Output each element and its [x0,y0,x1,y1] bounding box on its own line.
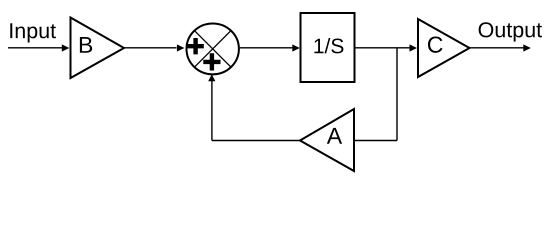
wire A output to left [212,140,300,142]
amplifier block B (triangle) [71,18,125,79]
label B [80,37,92,53]
label A [327,128,342,144]
label Output [479,22,542,41]
summer X diagonal 2 [194,31,231,68]
summer X diagonal 1 [194,31,231,68]
integrator block 1/S [301,13,355,82]
wire feedback vertical up into summer [208,74,215,140]
summing junction circle [187,23,239,74]
wire B to summer [124,44,184,51]
wire feedback horizontal into A [354,140,397,142]
label Input [10,23,56,42]
plus sign bottom input [203,53,220,70]
label C [428,37,443,53]
label 1/S [314,38,343,53]
wire summer to 1/S [240,44,300,51]
wire output arrow [470,44,531,51]
wire feedback vertical right (branch node after 1/S) [396,48,398,141]
wire input arrow into B [8,44,69,51]
plus sign left input [187,38,203,54]
wire 1/S to C [355,44,418,51]
feedback block A (triangle pointing left) [300,109,354,171]
amplifier block C (triangle) [418,19,470,77]
